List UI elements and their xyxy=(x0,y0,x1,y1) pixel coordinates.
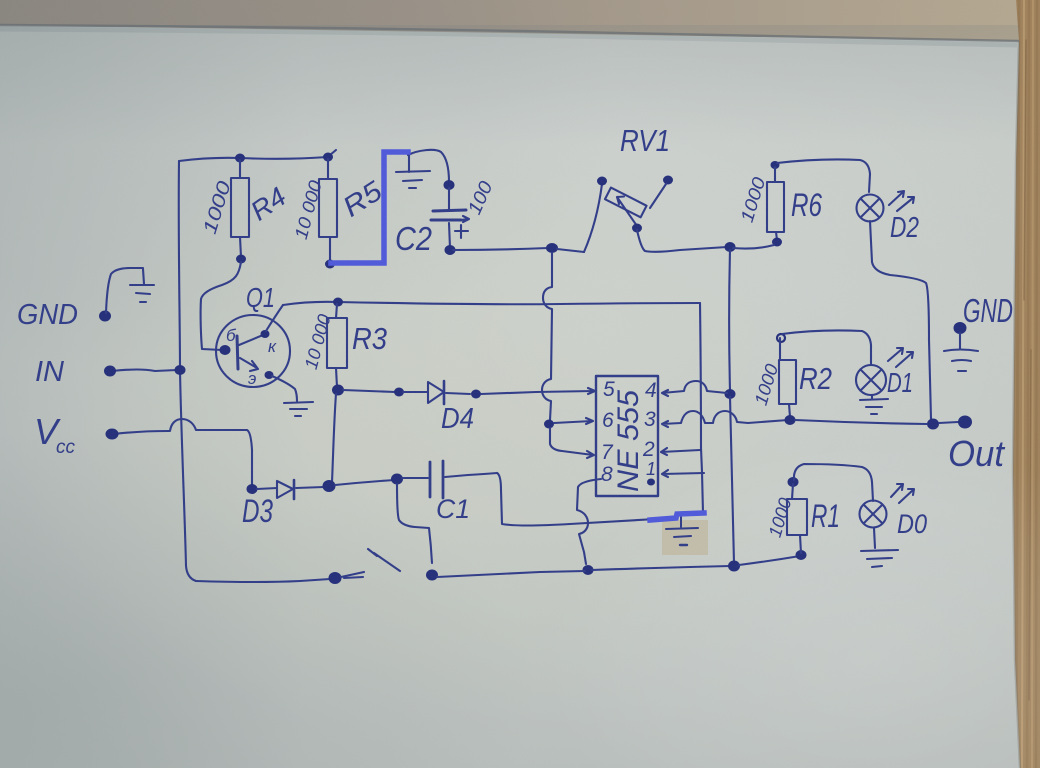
node R3 bottom xyxy=(332,385,344,396)
node D4 cathode xyxy=(471,390,481,399)
resistor R4 xyxy=(239,160,241,178)
node R2 bottom xyxy=(785,415,796,425)
node R5 bottom xyxy=(325,260,335,269)
wire pin4 xyxy=(662,381,727,396)
ground (left GND) xyxy=(143,269,144,284)
wire pin8 down to rail xyxy=(577,479,601,564)
potentiometer RV1 xyxy=(584,184,602,252)
wire Q1 emitter to ground xyxy=(272,376,297,401)
node pin6 junction xyxy=(544,420,554,429)
switch tail xyxy=(341,572,364,578)
node R4 top xyxy=(235,154,245,163)
bottom-right light xyxy=(540,440,1040,768)
diode D4 xyxy=(428,382,444,403)
node R5 top xyxy=(323,153,333,162)
lamp D1 xyxy=(856,365,886,395)
out rail right xyxy=(795,420,927,424)
capacitor C1 xyxy=(429,462,432,497)
node R3 top xyxy=(333,298,343,307)
ground (D1) xyxy=(871,395,873,398)
resistor R6 xyxy=(771,161,780,169)
resistor R1 xyxy=(788,477,799,487)
wire pin1 xyxy=(662,470,704,477)
crease line xyxy=(0,25,1019,41)
switch lever xyxy=(368,549,400,571)
node IN rail xyxy=(175,365,186,375)
wire pin2 xyxy=(661,448,700,455)
resistor R2 xyxy=(777,334,785,342)
node RV1/R6 junction xyxy=(725,242,736,252)
paper right edge shadow xyxy=(1013,41,1020,768)
tan correction patch under 555 ground xyxy=(662,520,708,555)
arrows D0 xyxy=(891,484,903,497)
capacitor C2 xyxy=(448,188,450,209)
bottom rail mid xyxy=(437,571,585,577)
node D2 rail xyxy=(927,419,939,430)
pin1 marker dot xyxy=(647,479,655,486)
wire C1 right down and along to blue xyxy=(497,473,656,526)
wire top rail xyxy=(179,157,328,161)
lamp D0 xyxy=(860,501,887,528)
wire vertical x551 from junction to pin7 xyxy=(542,253,552,420)
wire tail R5 top xyxy=(330,150,336,155)
ground (555 patch) xyxy=(680,517,682,527)
wire R1 top to lamp D0 xyxy=(794,464,873,501)
node C2 top xyxy=(444,180,455,190)
ground (Q1 emitter) xyxy=(284,402,313,403)
node pin4 junction xyxy=(725,389,736,399)
node rail C1 xyxy=(426,570,438,581)
terminal IN dot xyxy=(104,366,116,377)
wire R2 top to lamp D1 xyxy=(782,330,871,365)
resistor R5 xyxy=(327,159,329,179)
ground (D0) xyxy=(874,528,875,548)
wire C2 ground arm xyxy=(408,150,449,182)
wire IN xyxy=(112,370,177,372)
node C2 bottom xyxy=(445,245,456,255)
bottom rail left part xyxy=(196,579,330,582)
blue highlight bracket R5/C2 xyxy=(331,152,408,263)
ground (C2 top) xyxy=(408,155,410,172)
wire R4 bottom to Q1 base xyxy=(201,262,241,350)
node rail x734 xyxy=(728,561,740,572)
node R1 bottom xyxy=(796,550,807,560)
node switch left xyxy=(329,572,342,584)
node C1 left xyxy=(391,474,403,485)
node D4 anode xyxy=(394,388,404,397)
arrows D2 xyxy=(889,191,904,205)
wire R3 bottom down to D3 node xyxy=(332,394,336,482)
node D3 junction xyxy=(323,480,336,492)
GND right terminal xyxy=(954,322,967,334)
wire vertical junction to pin4 and bottom rail xyxy=(728,250,731,391)
diode D3 xyxy=(277,481,293,498)
node rail pin8 xyxy=(583,565,594,575)
wire collector rail y303 xyxy=(283,302,700,305)
terminal Vcc dot xyxy=(106,429,119,440)
wire down to pin2/pin1 xyxy=(700,303,703,513)
wire left rail vertical xyxy=(179,161,196,581)
node junction C2/RV1/pins xyxy=(546,243,558,253)
wire pin6 xyxy=(554,418,593,424)
node D3 anode xyxy=(247,484,258,494)
green tint zone xyxy=(0,130,860,730)
wire D2 down to out rail xyxy=(870,221,931,419)
wire pin3 to out rail xyxy=(662,411,788,427)
terminal GND left dot xyxy=(99,311,111,322)
arrows D1 xyxy=(888,348,903,361)
wire junction to RV1 left leg xyxy=(557,249,584,252)
paper shading top-left xyxy=(0,0,620,370)
ground (right GND) xyxy=(944,350,978,352)
lamp D2 xyxy=(857,195,884,222)
wire D4 row xyxy=(343,390,395,392)
transistor Q1 xyxy=(216,315,290,387)
node Out terminal xyxy=(958,416,972,429)
wood grain xyxy=(1016,0,1037,768)
wire D4 node to pin5 with vertical passing xyxy=(481,388,595,394)
wire to C1 xyxy=(335,480,394,485)
wire C1 left node down to rail xyxy=(397,484,432,563)
blue highlight segment 555 ground xyxy=(650,513,704,520)
wire R6 top to lamp D2 xyxy=(777,159,870,192)
folded paper band at top xyxy=(0,0,1019,41)
node R4 bottom xyxy=(236,255,246,264)
wire Vcc row xyxy=(114,419,252,485)
IC NE555 box xyxy=(596,376,658,496)
wire GND terminal up xyxy=(106,268,143,313)
resistor R3 xyxy=(336,304,337,318)
wire C2 bottom to junction xyxy=(453,248,548,250)
